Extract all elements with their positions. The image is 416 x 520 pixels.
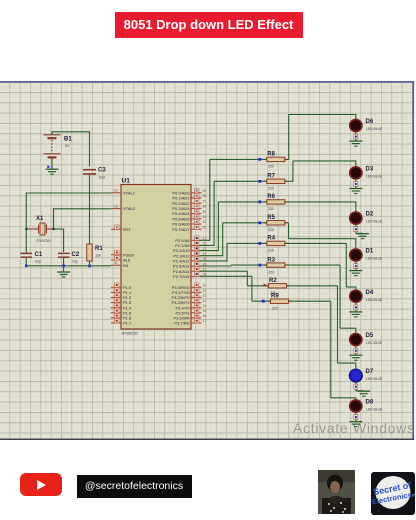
svg-text:5V: 5V [65,144,70,148]
pin 2 P1.1 [111,291,121,293]
svg-text:R9: R9 [271,293,279,299]
svg-text:ALE: ALE [123,258,131,263]
channel logo [371,472,415,515]
wire R9 to D8 [289,300,331,302]
svg-text:R8: R8 [267,152,275,158]
svg-text:X1: X1 [36,216,44,222]
pin 39 P0.0/AD0 [191,192,202,194]
resistor R8 220 [264,157,288,161]
pin 12 P3.2/INT0 [191,296,202,298]
resistor R5 220 [264,221,288,225]
svg-text:15: 15 [203,309,207,313]
svg-text:B1: B1 [64,137,72,143]
svg-text:18: 18 [114,204,118,208]
svg-text:220: 220 [268,187,274,191]
svg-text:R1: R1 [95,246,103,252]
node R6 left [258,201,261,204]
svg-text:EA: EA [123,263,129,268]
pin 10 P3.0/RXD [191,286,202,288]
pin 5 P1.4 [111,307,121,309]
svg-text:35: 35 [203,210,207,214]
svg-text:CRYSTAL: CRYSTAL [36,239,51,243]
LED D5 LED-BLUE [350,334,362,346]
svg-text:P0.7/AD7: P0.7/AD7 [172,227,190,232]
LED D2 LED-BLUE [350,212,362,224]
svg-text:LED-BLUE: LED-BLUE [366,174,383,178]
svg-text:220: 220 [268,228,274,232]
svg-text:R4: R4 [267,236,275,242]
wire P2.1 to R7 [200,244,214,246]
resistor R2 220 [266,284,290,288]
svg-text:10uf: 10uf [99,176,106,180]
node R9 left [262,300,265,303]
svg-text:D5: D5 [366,333,374,339]
svg-text:P3.7/RD: P3.7/RD [174,321,189,326]
title banner [115,12,303,38]
pin 14 P3.4/T0 [191,307,202,309]
svg-text:XTAL2: XTAL2 [123,206,136,211]
svg-text:13: 13 [203,299,207,303]
svg-text:32: 32 [203,225,207,229]
svg-text:36: 36 [203,205,207,209]
node C1 bottom [25,265,28,268]
pin 32 P0.7/AD7 [191,228,202,230]
author photo [318,470,355,514]
svg-text:22p: 22p [72,260,78,264]
pin 30 ALE [111,259,121,261]
wire R4 to D4 [285,242,347,244]
pin 1 P1.0 [111,286,121,288]
svg-text:220: 220 [268,165,274,169]
wire P2.3 to R5 [200,255,223,257]
wire P2.2 to R6 [200,250,218,252]
resistor R7 220 [264,179,288,183]
svg-text:LED-BLUE: LED-BLUE [366,127,383,131]
svg-text:R6: R6 [267,194,275,200]
wire R7 to D3 [285,180,293,182]
pin 11 P3.1/TXD [191,291,202,293]
svg-text:22p: 22p [35,260,41,264]
svg-text:D7: D7 [366,369,374,375]
wire P2.6 to R2 [200,270,247,272]
wire XTAL2 from chip to crystal right [54,208,111,210]
resistor R9 220 [268,299,292,303]
wire crystal left down to C1 [25,229,27,253]
LED D6 LED-BLUE [350,119,362,131]
svg-text:220: 220 [268,207,274,211]
resistor R3 220 [264,263,288,267]
svg-text:31: 31 [114,261,118,265]
LED D4 LED-BLUE [350,290,362,302]
pin 33 P0.6/AD6 [191,223,202,225]
svg-text:C2: C2 [72,252,80,258]
svg-text:D3: D3 [366,166,374,172]
pin 29 PSEN [111,254,121,256]
svg-text:220: 220 [272,306,278,310]
svg-text:R2: R2 [269,278,277,284]
wire P2.5 to R3 [200,265,231,267]
svg-text:R5: R5 [267,215,275,221]
svg-text:220: 220 [268,270,274,274]
op chip U1 AT89C51 body [121,185,191,330]
svg-text:R3: R3 [267,257,275,263]
svg-text:19: 19 [114,189,118,193]
LED D3 LED-BLUE [350,167,362,179]
svg-text:10k: 10k [96,254,102,258]
pin 16 P3.6/WR [191,317,202,319]
resistor R4 220 [264,241,288,245]
svg-text:AT89C51: AT89C51 [122,331,139,336]
svg-text:33: 33 [203,220,207,224]
node C2 bottom [62,265,65,268]
svg-text:LED-BLUE: LED-BLUE [366,257,383,261]
wire ground rail C1/C2/R1 to EA [25,258,27,266]
node R5 left [258,221,261,224]
pin 7 P1.6 [111,317,121,319]
wire battery top rail to C3 column [51,132,53,135]
resistor R1 [87,244,92,261]
svg-text:C1: C1 [35,252,43,258]
node R2 left [264,284,267,287]
pin 28 P2.7/A15 [191,275,202,277]
svg-text:12: 12 [203,294,207,298]
capacitor C2 [58,253,70,257]
svg-text:PSEN: PSEN [123,252,134,257]
pin 22 P2.1/A9 [191,244,202,246]
crystal X1 [27,223,56,235]
wire XTAL1 from chip to crystal left [26,192,111,194]
LED D8 LED-BLUE [350,400,362,412]
pin 18 XTAL2 [111,208,121,210]
svg-text:XTAL1: XTAL1 [123,190,136,195]
svg-text:LED-BLUE: LED-BLUE [366,220,383,224]
svg-text:D8: D8 [366,400,374,406]
wire R8 to D6 [285,158,289,160]
svg-text:38: 38 [203,194,207,198]
wire R5 to D1 [285,222,289,224]
pin 9 RST [111,228,121,230]
node R3 left [258,264,261,267]
wire R1 bottom to ground rail [89,261,91,266]
svg-text:14: 14 [203,304,207,308]
pin 24 P2.3/A11 [191,255,202,257]
svg-text:RST: RST [123,227,132,232]
pin 13 P3.3/INT1 [191,302,202,304]
svg-text:17: 17 [203,319,207,323]
LED D1 LED-BLUE [350,249,362,261]
svg-text:D2: D2 [366,212,374,218]
pin 38 P0.1/AD1 [191,197,202,199]
LED D7 LED-BLUE [350,369,363,382]
resistor R6 220 [264,200,288,204]
wire crystal right to C2 [54,228,64,230]
svg-text:34: 34 [203,215,207,219]
svg-text:LED-BLUE: LED-BLUE [366,408,383,412]
node crystal-left junction [25,228,27,230]
pin 31 EA [111,264,121,266]
svg-text:LED-BLUE: LED-BLUE [366,377,383,381]
wire C3 to R1 [89,175,91,245]
capacitor C3 [83,170,96,174]
wire R2 to D7 [287,285,338,287]
svg-text:LED-BLUE: LED-BLUE [366,298,383,302]
svg-text:C3: C3 [98,168,106,174]
capacitor C1 [21,253,33,257]
youtube icon [20,473,62,496]
svg-text:220: 220 [268,249,274,253]
ground below battery [46,169,59,174]
node R8 left [258,158,261,161]
pin 37 P0.2/AD2 [191,202,202,204]
pin 34 P0.5/AD5 [191,218,202,220]
svg-text:37: 37 [203,199,207,203]
pin 15 P3.5/T1 [191,312,202,314]
svg-text:D1: D1 [366,249,374,255]
wire R6 to D2 [285,201,357,203]
pin 36 P0.3/AD3 [191,207,202,209]
pin 27 P2.6/A14 [191,270,202,272]
svg-text:LED-BLUE: LED-BLUE [366,341,383,345]
wire P2.0 to R8 [200,239,210,241]
pin 26 P2.5/A13 [191,265,202,267]
svg-text:16: 16 [203,314,207,318]
wire battery negative to ground [51,159,53,169]
svg-text:11: 11 [203,289,207,293]
svg-text:39: 39 [203,189,207,193]
pin 35 P0.4/AD4 [191,213,202,215]
wire P2.7 to R9 [200,275,252,277]
svg-text:10: 10 [203,284,207,288]
battery B1 [44,135,61,158]
svg-text:D4: D4 [366,290,374,296]
pin 19 XTAL1 [111,192,121,194]
ground below C2 [63,266,65,272]
svg-text:Activate Windows: Activate Windows [293,420,415,436]
pin 8 P1.7 [111,322,121,324]
pin 3 P1.2 [111,296,121,298]
svg-text:D6: D6 [366,119,374,125]
node R7 left [258,180,261,183]
svg-text:U1: U1 [122,178,131,185]
svg-text:P1.7: P1.7 [123,321,132,326]
node crystal-right junction [52,228,54,230]
pin 17 P3.7/RD [191,322,202,324]
channel handle pill [77,475,192,498]
node R4 left [258,242,261,245]
svg-text:R7: R7 [267,174,275,180]
pin 25 P2.4/A12 [191,260,202,262]
wire P2.4 to R4 [200,260,227,262]
wire R3 to D5 [285,264,340,266]
pin 6 P1.5 [111,312,121,314]
pin 23 P2.2/A10 [191,250,202,252]
pin 21 P2.0/A8 [191,239,202,241]
svg-text:P2.7/A15: P2.7/A15 [173,274,190,279]
pin 4 P1.3 [111,302,121,304]
